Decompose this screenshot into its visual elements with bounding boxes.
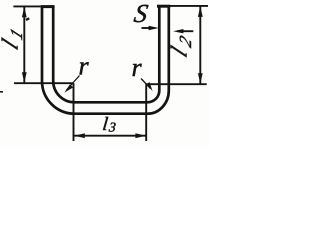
leader line right r with arrowhead [141,79,151,89]
svg-text:r: r [132,53,143,82]
arrow l1 top (up) [22,7,27,18]
dimension line l3 horizontal [74,135,145,137]
svg-text:l2: l2 [167,28,195,63]
arrow l1 bottom (down) [22,72,27,82]
tick near l1 line [26,18,29,20]
extension line lower-right horizontal (bend tangent) [146,83,207,85]
left wall top edge cap [41,5,55,8]
extension line left vertical (l3 left, through bend) [73,83,75,141]
arrow l2 bottom (down) [198,73,203,84]
extension line top-right (for l2) [170,5,208,7]
leader line left r with arrowhead [67,76,80,91]
svg-text:l1: l1 [0,20,26,55]
left page-edge dash [0,91,3,93]
dimension line l1 vertical [23,7,25,83]
extension line top-left (for l1) [13,5,40,7]
channel inner contour (left wall inner, big inner bend, bottom inner, small inner bend, right wall inner) [53,6,159,102]
extension line lower-left horizontal (bend tangent) [14,82,74,84]
extension line right vertical (l3 right, through bend) [145,84,147,141]
svg-text:S: S [132,0,150,28]
svg-text:l3: l3 [101,114,117,135]
channel outer contour (left wall outer, big bend, bottom outer, small bend, right wall outer) [42,6,169,114]
dimension line l2 vertical [199,6,201,84]
S dimension left segment with right-pointing arrow at inner wall [142,27,154,29]
svg-text:r: r [79,52,90,81]
right wall top edge cap [157,5,170,8]
arrow l3 right [135,133,146,138]
arrow l3 left [74,133,85,138]
arrow l2 top (up) [198,6,203,17]
S dimension right segment with left-pointing arrow [178,30,194,32]
